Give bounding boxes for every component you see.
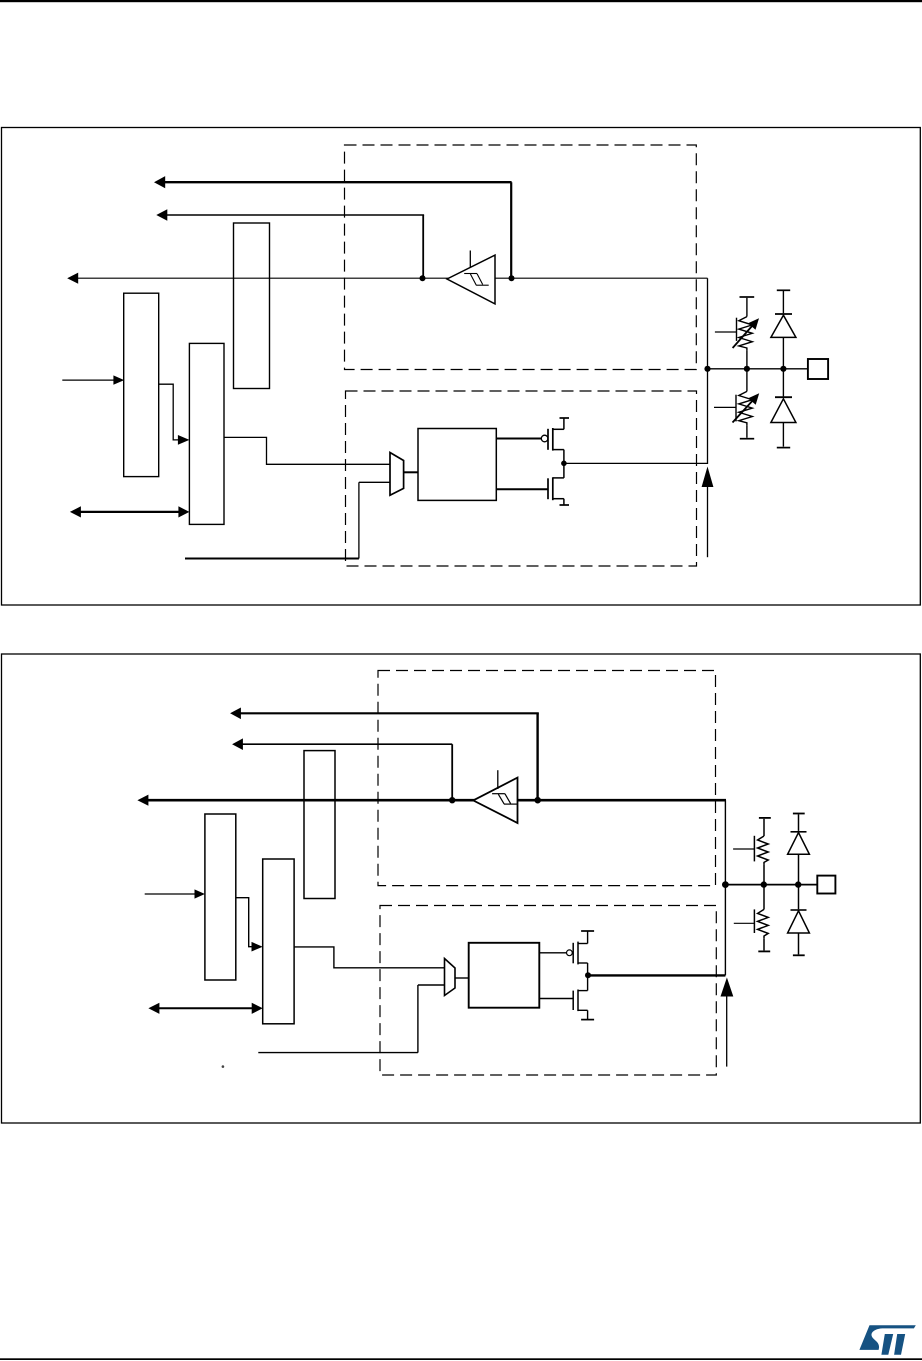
wire: mux output [455,977,469,979]
node J junction [795,881,801,887]
VDD bar (diode) [793,813,805,815]
transistor Q4 N-MOS gate wire [539,998,573,1000]
wire: read data bus arrow (top) [154,176,512,278]
transistor Q1 P-MOS symbol [548,418,564,463]
output control block U1 [418,429,496,501]
wire: write arrow into register [62,375,124,384]
wire: register2 to output mux [224,437,390,464]
wire: output driver line to pin [588,974,725,976]
node H junction [722,881,729,888]
transistor Q3 P-MOS gate wire [539,952,566,954]
page bottom rule [0,1358,922,1360]
wire: vertical pin bus [724,800,726,975]
wire: schmitt trigger input line to peripherals [137,795,726,806]
node: push-pull output junction [585,972,591,978]
input driver dashed box [345,145,697,370]
wire: pad node line [708,368,808,370]
resistor R4 pull-down [734,885,768,951]
VDD_FT bar [777,289,790,291]
wire: schmitt trigger input line to peripherals [67,273,707,284]
VSS bar (pull-down) [740,438,754,440]
wire: vertical pin bus [707,278,709,464]
diode D3 protection to VDD [788,814,810,884]
stray period mark [222,1065,225,1068]
node D junction [744,366,750,372]
wire: second read arrow [156,209,424,278]
transistor Q2 N-MOS gate wire [496,488,548,490]
transistor Q2 N-MOS symbol [548,463,564,505]
VDD bar (pull-up) [740,296,755,298]
I/O pin pad [808,359,828,379]
transistor Q3 gate bubble [567,950,573,956]
register block 2 [263,859,294,1024]
wire: alternate function output line [258,985,444,1053]
node G schmitt output junction [534,797,541,804]
page top rule [0,0,922,2]
ST logo [859,1325,915,1355]
VSS tick [560,504,570,506]
node: push-pull output junction [561,461,567,467]
VSS bar (diode) [777,447,790,449]
diode D1 protection to VDD_FT [771,291,796,369]
wire: register2 to output mux [294,947,444,968]
node B schmitt output junction [509,275,515,281]
node I junction [761,881,767,887]
wire: second read arrow [232,738,452,800]
wire: analog arrow [702,467,714,558]
resistor R1 pull-up [715,298,759,369]
wire: read/write double arrow [70,506,189,517]
input driver dashed box [378,671,716,886]
register block 1 [124,293,159,476]
node F schmitt input junction [449,797,455,803]
op-amp U4 TTL schmitt trigger [473,770,517,823]
VSS bar (diode) [793,954,805,956]
wire: read data bus arrow (top) [230,708,539,799]
wire: pad node line [725,884,818,886]
wire: analog arrow [721,978,734,1067]
transistor Q3 P-MOS symbol [573,932,587,976]
VDD tick [560,417,570,419]
resistor R2 pull-down [714,369,759,438]
diode D4 protection to VSS [788,885,810,955]
resistor R3 pull-up [733,819,768,885]
wire: alternate function output line [185,482,390,558]
wire: mux output [404,471,418,473]
output driver dashed box [380,906,716,1076]
wire: step connector register1 to register2 [236,898,263,952]
output control block U3 [469,943,540,1008]
transistor Q1 gate bubble [541,435,548,442]
register block 2 [189,343,224,524]
op-amp U2 TTL schmitt trigger [447,251,495,304]
wire: read/write double arrow [148,1003,262,1014]
VDD bar (pull-up) [759,817,771,819]
figure 1 frame [2,128,921,606]
register block 3 (input data register) [234,223,270,389]
transistor Q1 P-MOS gate wire [496,438,541,440]
output driver dashed box [346,391,697,566]
output mux [445,959,456,996]
node E junction [780,366,786,372]
figure 2 frame [2,654,921,1123]
diode D2 protection to VSS [771,369,796,447]
VSS tick [581,1019,594,1021]
register block 3 (input data register) [304,751,335,899]
wire: output driver line to pin [564,462,708,464]
I/O pin pad [817,876,835,894]
transistor Q4 N-MOS symbol [573,975,587,1019]
output mux [390,453,404,496]
wire: step connector register1 to register2 [159,384,190,445]
node A schmitt input junction [420,275,426,281]
register block 1 [205,814,236,980]
VDD tick [581,930,594,932]
node C junction [704,366,710,372]
wire: write arrow into register [145,889,205,898]
VSS bar (pull-down) [758,950,770,952]
